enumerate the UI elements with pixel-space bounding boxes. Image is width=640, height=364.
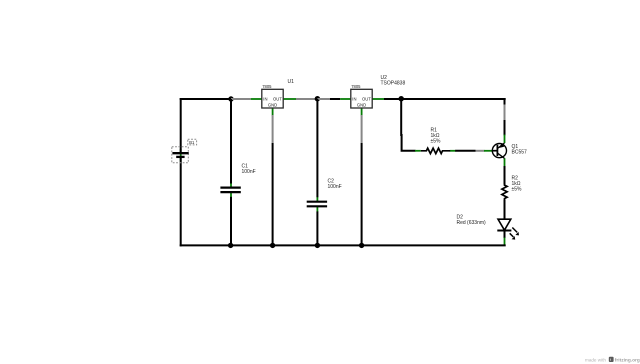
svg-text:7805: 7805 [351, 84, 361, 89]
svg-text:Red (633nm): Red (633nm) [457, 220, 487, 226]
svg-text:100nF: 100nF [242, 169, 256, 175]
wire: bottom rail [180, 244, 506, 246]
wire: U2 GND black segment to bottom rail [361, 143, 363, 245]
svg-text:IN: IN [263, 96, 267, 101]
wire: black segment to U2 IN pin [330, 98, 340, 100]
wire: U1 GND gray segment [272, 115, 274, 143]
wire: right column black segment to Q1 emitter pin [504, 120, 506, 136]
wire: gray segment U1 OUT to C2 node [296, 98, 317, 100]
wire: right column gray segment [504, 105, 506, 121]
battery B1 green pins (under wires) [180, 149, 182, 162]
wire: U1 GND black segment to bottom rail [272, 143, 274, 245]
wire: gray stub right of C2 node [317, 98, 330, 100]
svg-text:BC557: BC557 [512, 150, 528, 156]
wire: U2 OUT to R1 branch node [384, 98, 401, 100]
svg-text:B1: B1 [189, 140, 195, 145]
svg-text:GND: GND [357, 103, 366, 108]
node: bottom rail / U1 GND junction [270, 243, 275, 248]
svg-text:100nF: 100nF [328, 184, 342, 190]
watermark: made with fritzing.org [585, 357, 640, 364]
wire: C1 bottom lead [230, 197, 232, 246]
svg-text:f: f [610, 358, 611, 362]
svg-text:±5%: ±5% [512, 187, 523, 193]
svg-text:GND: GND [268, 103, 277, 108]
wire: left rail top segment (battery + to top rail) [180, 98, 182, 153]
resistor R1 (1k) [415, 128, 456, 154]
svg-text:made with: made with [585, 358, 606, 363]
wire: U2 GND gray segment [361, 115, 363, 143]
LED D2 (Red 633nm) [457, 215, 520, 245]
wire: top rail from left corner to C1 node [180, 98, 231, 100]
wire: C2 bottom lead [316, 211, 318, 245]
transistor Q1 (BC557 PNP) [484, 135, 527, 167]
node: bottom rail / C2 junction [315, 243, 320, 248]
svg-text:U1: U1 [288, 79, 295, 85]
wire: R2 to LED anode [504, 200, 506, 220]
svg-text:fritzing.org: fritzing.org [615, 358, 640, 364]
wire: gray segment C1 node to U1 IN pin [231, 98, 251, 100]
wire: base branch down and right to R1 [401, 99, 415, 151]
capacitor C2 [307, 179, 342, 212]
svg-text:7805: 7805 [262, 84, 272, 89]
svg-text:IN: IN [352, 96, 356, 101]
svg-text:TSOP4838: TSOP4838 [381, 81, 406, 87]
svg-text:OUT: OUT [362, 96, 371, 101]
wire: top rail to right corner [401, 98, 506, 100]
wire: right corner down (black stub) [504, 98, 506, 105]
node: bottom rail / U2 GND junction [359, 243, 364, 248]
wire: C2 top lead [316, 99, 318, 197]
node: bottom rail / C1 junction [228, 243, 233, 248]
wire: R1 to Q1 base (black then gray) [455, 150, 484, 152]
node: top rail / C2 junction [315, 96, 320, 101]
node: top rail / R1 branch junction [399, 96, 404, 101]
capacitor C1 [220, 164, 255, 198]
voltage regulator U2 (TSOP4838 label, 7805 symbol) [340, 75, 405, 116]
wire: Q1 collector to R2 [504, 166, 506, 185]
battery B1 (selected) [172, 139, 197, 162]
svg-text:±5%: ±5% [431, 139, 442, 145]
wire: C1 top lead [230, 99, 232, 184]
voltage regulator U1 (7805) [251, 79, 296, 116]
svg-text:OUT: OUT [273, 96, 282, 101]
wire: left rail bottom segment (battery - to bottom rail) [180, 157, 182, 246]
resistor R2 (1k) [502, 176, 522, 201]
node: top rail / C1 junction [228, 96, 233, 101]
